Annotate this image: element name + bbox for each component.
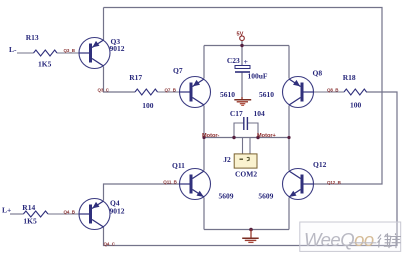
svg-text:C23: C23 bbox=[227, 56, 240, 65]
wire R14 to Q4 base bbox=[48, 213, 79, 215]
junction ground on bottom rail bbox=[249, 228, 253, 232]
watermark CJK ku bbox=[389, 233, 401, 248]
svg-text:Q3_B: Q3_B bbox=[64, 48, 76, 53]
resistor R17 bbox=[135, 89, 158, 95]
ground under C23 bbox=[234, 97, 251, 105]
svg-text:Q11_B: Q11_B bbox=[163, 180, 177, 185]
resistor R13 bbox=[34, 50, 58, 56]
wire R13 to Q3 base bbox=[57, 52, 79, 54]
wire R18 to right outer bbox=[104, 92, 398, 246]
svg-text:C17: C17 bbox=[230, 109, 243, 118]
wire C23 to ground bbox=[241, 73, 243, 100]
wire L- input bbox=[17, 52, 34, 54]
svg-text:1K5: 1K5 bbox=[23, 217, 37, 226]
wire Q11 emitter down to bottom rail bbox=[203, 198, 205, 230]
wire motor rail bbox=[204, 137, 289, 139]
wire Q8 base to R18 bbox=[314, 91, 345, 93]
wire 5V to C23 bbox=[241, 41, 243, 66]
transistor Q8 bbox=[283, 77, 314, 108]
svg-text:5609: 5609 bbox=[219, 192, 234, 201]
svg-text:R13: R13 bbox=[26, 33, 39, 42]
wire Q3 collector down to R17 row bbox=[104, 67, 136, 93]
svg-text:100: 100 bbox=[350, 101, 362, 110]
svg-text:L-: L- bbox=[9, 45, 17, 54]
svg-text:1K5: 1K5 bbox=[38, 60, 52, 69]
svg-text:100uF: 100uF bbox=[248, 72, 268, 81]
wire Q12 emitter down to bottom rail bbox=[288, 198, 290, 230]
wire top outer bbox=[104, 8, 383, 185]
svg-text:100: 100 bbox=[142, 101, 154, 110]
svg-text:Q8: Q8 bbox=[313, 69, 323, 78]
junction motor rail left bbox=[202, 136, 205, 139]
resistor R18 bbox=[344, 89, 367, 95]
svg-text:WeeQoo: WeeQoo bbox=[304, 229, 374, 250]
wire C17 right leg bbox=[247, 123, 258, 138]
transistor Q4 bbox=[79, 199, 110, 230]
svg-text:Q8_B: Q8_B bbox=[327, 87, 339, 92]
transistor Q11 bbox=[180, 169, 211, 200]
svg-text:Q12_B: Q12_B bbox=[327, 180, 342, 185]
svg-text:R14: R14 bbox=[22, 203, 35, 212]
svg-text:R17: R17 bbox=[129, 73, 142, 82]
svg-text:L+: L+ bbox=[2, 206, 11, 215]
wire Q7 emitter up to top rail bbox=[203, 46, 205, 79]
wire L+ input bbox=[10, 213, 23, 215]
wire C17 left leg bbox=[234, 123, 244, 138]
svg-text:COM2: COM2 bbox=[235, 170, 257, 179]
svg-text:Motor-: Motor- bbox=[202, 133, 220, 139]
svg-text:Motor+: Motor+ bbox=[257, 133, 277, 139]
wire Q12 collector up to motor rail bbox=[288, 138, 290, 171]
svg-text:104: 104 bbox=[254, 109, 266, 118]
svg-text:Q11: Q11 bbox=[172, 161, 185, 170]
wire Q7 collector down to motor rail bbox=[203, 106, 205, 138]
wire bottom rail bbox=[204, 229, 289, 231]
svg-text:J2: J2 bbox=[223, 155, 231, 164]
wire Q4 emitter up to Q11 base bbox=[104, 184, 180, 201]
transistor Q3 bbox=[79, 38, 110, 69]
svg-text:R18: R18 bbox=[343, 73, 356, 82]
connector J2 bbox=[223, 154, 257, 179]
svg-text:5610: 5610 bbox=[259, 90, 274, 99]
svg-text:5610: 5610 bbox=[220, 90, 235, 99]
svg-text:Q4_C: Q4_C bbox=[104, 241, 116, 246]
junction C17 right on motor rail bbox=[256, 136, 259, 139]
ground under bottom rail bbox=[242, 230, 259, 243]
svg-text:5V: 5V bbox=[237, 31, 244, 37]
transistor Q7 bbox=[180, 77, 211, 108]
transistor Q12 bbox=[283, 169, 314, 200]
capacitor C23 bbox=[227, 56, 268, 81]
svg-text:Q12: Q12 bbox=[313, 160, 327, 169]
svg-text:9012: 9012 bbox=[110, 44, 125, 53]
svg-text:Q4_B: Q4_B bbox=[64, 210, 76, 215]
resistor R14 bbox=[23, 211, 48, 217]
wire R17 to Q7 base bbox=[158, 91, 180, 93]
svg-text:+: + bbox=[244, 57, 248, 66]
watermark Q tail stroke bbox=[349, 242, 377, 244]
svg-text:Q3_C: Q3_C bbox=[98, 88, 110, 93]
wire Q11 collector up to motor rail bbox=[203, 138, 205, 171]
junction motor rail right bbox=[287, 136, 290, 139]
junction 5V on top rail bbox=[240, 44, 243, 47]
wire top rail bbox=[204, 45, 289, 47]
capacitor C17 bbox=[230, 109, 265, 130]
wire Q8 emitter up to top rail bbox=[288, 46, 290, 79]
wire J2 pin1 bbox=[242, 138, 244, 154]
power 5V bbox=[237, 31, 245, 40]
wire Q3 emitter up bbox=[103, 8, 105, 41]
watermark box bbox=[300, 222, 401, 251]
wire Q8 collector down to motor rail bbox=[288, 106, 290, 138]
svg-text:5609: 5609 bbox=[258, 192, 273, 201]
junction C17 left on motor rail bbox=[232, 136, 235, 139]
watermark CJK wei bbox=[378, 233, 392, 247]
svg-text:Q7_B: Q7_B bbox=[165, 88, 177, 93]
svg-text:Q7: Q7 bbox=[173, 66, 183, 75]
svg-text:9012: 9012 bbox=[110, 207, 125, 216]
wire J2 pin2 bbox=[249, 138, 251, 154]
